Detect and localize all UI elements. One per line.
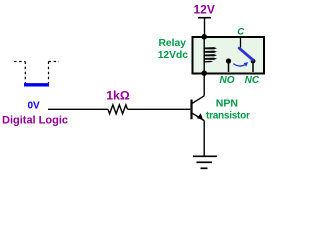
wire (input to resistor): [48, 108, 108, 110]
base bar: [190, 100, 192, 120]
svg-text:NO: NO: [220, 75, 235, 86]
svg-text:NPN: NPN: [216, 98, 238, 110]
node junction (bottom of relay): [201, 70, 207, 76]
svg-text:Digital Logic: Digital Logic: [2, 115, 68, 127]
transistor Q1 NPN: [192, 96, 205, 121]
ground: [193, 156, 217, 168]
svg-text:12Vdc: 12Vdc: [158, 50, 189, 61]
relay common terminal C stub: [240, 37, 242, 48]
svg-text:NC: NC: [245, 75, 260, 86]
switch actuation arrow (blue curved): [233, 64, 245, 66]
wire (resistor to transistor base): [128, 108, 191, 110]
relay K1 body: [193, 37, 265, 74]
relay coil wire through box: [203, 37, 205, 73]
svg-text:12V: 12V: [194, 2, 215, 16]
input pulse waveform (dashed high level): [14, 62, 59, 85]
relay contact NO post: [226, 58, 231, 63]
relay switch lever (blue, C to NC): [239, 48, 253, 60]
power rail bar 12V: [198, 17, 211, 19]
node junction (top of relay): [201, 34, 207, 40]
relay contact NC post: [251, 59, 256, 64]
emitter arrowhead: [197, 113, 203, 120]
collector diagonal: [192, 96, 205, 104]
resistor R1 zigzag: [108, 105, 128, 114]
relay coil loops: [204, 47, 217, 62]
wire (collector up to relay): [203, 73, 205, 96]
svg-text:1kΩ: 1kΩ: [106, 89, 130, 103]
wire (emitter down to ground): [203, 120, 205, 156]
svg-text:transistor: transistor: [206, 111, 250, 122]
emitter diagonal: [192, 113, 205, 121]
svg-text:0V: 0V: [28, 101, 41, 112]
wire (rail to relay box): [204, 18, 206, 37]
input pulse low level (0V, solid blue): [24, 83, 49, 86]
svg-text:Relay: Relay: [159, 38, 187, 49]
svg-text:C: C: [237, 27, 244, 38]
